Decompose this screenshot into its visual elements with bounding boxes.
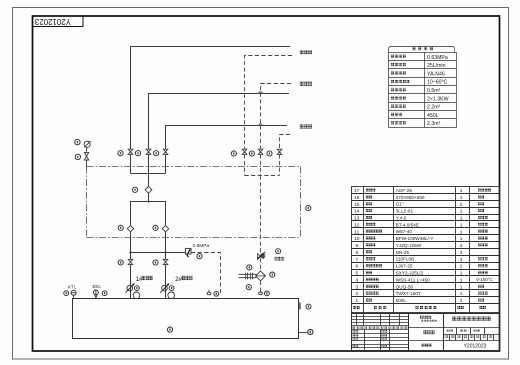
svg-text:Y2012023: Y2012023 — [464, 344, 487, 350]
wire supply line 3 — [166, 126, 288, 150]
svg-text:4: 4 — [355, 278, 358, 284]
svg-text:2×1.3KW: 2×1.3KW — [427, 96, 449, 102]
svg-text:1: 1 — [460, 216, 463, 222]
node circle on drain line — [306, 206, 311, 211]
svg-text:7: 7 — [355, 257, 358, 263]
svg-text:AGF-25: AGF-25 — [396, 188, 413, 193]
svg-text:0.5m²: 0.5m² — [427, 88, 441, 94]
svg-text:2: 2 — [460, 202, 463, 208]
wire filter to pump header — [148, 193, 150, 201]
svg-text:G1": G1" — [396, 202, 404, 207]
tank right level mark — [299, 303, 311, 310]
svg-text:8: 8 — [355, 250, 358, 256]
title block small scale cells marks — [445, 329, 493, 338]
wire return drop line (dashed) — [260, 176, 262, 253]
svg-text:2: 2 — [355, 291, 358, 297]
check valve CV1 — [118, 225, 134, 232]
svg-text:1: 1 — [460, 195, 463, 201]
svg-text:KTL: KTL — [68, 285, 77, 290]
wire hop at crossing L3 — [259, 124, 262, 126]
wire return line 3 (dashed) — [280, 135, 291, 150]
svg-text:0.63MPa: 0.63MPa — [427, 55, 448, 61]
parts row item 10 — [354, 236, 488, 242]
title block left texts — [352, 326, 407, 348]
tank drain stub valve — [299, 329, 313, 334]
check valve CV2 — [153, 225, 169, 232]
svg-text:WSS-411 L=450: WSS-411 L=450 — [396, 277, 431, 282]
wire return line 2 (dashed) — [261, 84, 292, 150]
svg-text:110FL0B: 110FL0B — [396, 257, 415, 262]
svg-text:1: 1 — [460, 236, 463, 242]
parts row item 13 — [354, 215, 488, 221]
level controller KTL — [64, 285, 77, 299]
svg-text:13: 13 — [354, 216, 360, 222]
svg-text:3: 3 — [355, 284, 358, 290]
wire manifold to filter — [148, 174, 150, 187]
title block company name — [452, 317, 491, 321]
svg-text:1: 1 — [460, 229, 463, 235]
svg-text:1: 1 — [460, 188, 463, 194]
valve V4 return with number circle — [231, 149, 247, 175]
svg-text:14: 14 — [354, 209, 360, 215]
pump P2 with motor — [160, 283, 174, 298]
gauge isolation valve — [75, 147, 89, 166]
air breather / fill port label — [275, 249, 285, 261]
chain drain line right vertical — [300, 167, 302, 238]
tech row 1 — [391, 55, 448, 61]
drawing number box top-left (rotated) — [33, 16, 84, 27]
svg-text:W57-40: W57-40 — [396, 229, 413, 234]
wire hop at crossing L2 — [259, 92, 262, 94]
tech row 5 — [391, 88, 440, 94]
svg-text:11: 11 — [354, 229, 359, 235]
valve V5 return with number circle — [249, 149, 263, 175]
svg-text:YA-N46: YA-N46 — [427, 71, 445, 77]
title block grid — [352, 314, 500, 351]
chain drain line top — [87, 166, 301, 168]
svg-text:15: 15 — [354, 202, 360, 208]
svg-text:3LLZ-61: 3LLZ-61 — [396, 209, 414, 214]
parts row item 9 — [355, 243, 487, 249]
valve V3 supply with number circle — [154, 149, 168, 173]
tech row 8 — [391, 113, 438, 119]
svg-text:10~60°C: 10~60°C — [427, 80, 448, 86]
wire valve to filter (dashed) — [260, 258, 262, 271]
parts row item 16 — [354, 195, 484, 201]
parts list table grid — [352, 187, 500, 313]
svg-text:2: 2 — [460, 264, 463, 270]
svg-text:3: 3 — [460, 257, 463, 263]
tech row 3 — [391, 71, 445, 77]
svg-text:25L/min: 25L/min — [427, 63, 446, 69]
svg-text:6: 6 — [355, 264, 358, 270]
svg-text:1: 1 — [460, 291, 463, 297]
svg-text:Y2012023: Y2012023 — [34, 17, 71, 26]
svg-text:450L: 450L — [427, 113, 439, 119]
tech row 9 — [391, 121, 440, 127]
chain drain line left vertical — [86, 167, 88, 238]
relief valve RV1 0.5MPa — [185, 243, 209, 259]
node label: to machine 2 — [300, 82, 312, 86]
svg-text:10: 10 — [354, 236, 360, 242]
wire supply line 1 — [131, 47, 291, 150]
svg-text:3: 3 — [460, 250, 463, 256]
node label: to machine 1 — [300, 50, 312, 54]
tech row 7 — [391, 105, 440, 111]
parts row item 17 — [354, 188, 491, 194]
svg-text:1: 1 — [460, 284, 463, 290]
parts header row — [353, 306, 486, 310]
return filter F2 (diamond) — [256, 271, 275, 281]
valve suction S1 — [118, 253, 133, 299]
valve V2 supply with number circle — [135, 149, 150, 173]
wire pump manifold horizontal — [131, 252, 186, 254]
wire return manifold (dashed) — [245, 175, 280, 177]
tech row 2 — [391, 63, 445, 69]
svg-text:Y-4.0: Y-4.0 — [396, 215, 407, 220]
wire return line 1 (dashed) — [245, 56, 293, 150]
svg-text:1: 1 — [355, 298, 358, 304]
fill valve with handle — [257, 252, 265, 260]
svg-text:2.2m³: 2.2m³ — [427, 105, 441, 111]
tech parameter table — [389, 47, 457, 128]
svg-text:5: 5 — [355, 271, 358, 277]
svg-text:1: 1 — [460, 271, 463, 277]
title block middle: project and sheet name — [419, 316, 437, 347]
svg-text:2.3m³: 2.3m³ — [427, 121, 441, 127]
svg-text:9: 9 — [355, 243, 358, 249]
wire check valves to suction manifold — [130, 232, 132, 253]
valve V1 supply with number circle — [118, 149, 133, 173]
svg-text:0-100°C: 0-100°C — [477, 277, 493, 282]
valve V6 return with number circle — [267, 149, 282, 175]
return diffuser into tank — [259, 291, 270, 296]
filter F1 (item 1) — [132, 186, 152, 193]
svg-text:EEL: EEL — [93, 284, 102, 289]
parts row item 3 — [355, 284, 484, 290]
parts row item 4 — [355, 277, 492, 283]
wire supply manifold — [131, 173, 166, 175]
svg-text:BT-4.0/54E: BT-4.0/54E — [396, 222, 419, 227]
svg-text:1: 1 — [460, 278, 463, 284]
svg-text:12: 12 — [354, 222, 360, 228]
svg-text:DN-25: DN-25 — [396, 250, 410, 255]
parts row item 11 — [354, 229, 487, 235]
svg-text:1: 1 — [460, 209, 463, 215]
svg-text:QUQ-50: QUQ-50 — [396, 284, 414, 289]
parts row item 8 — [355, 250, 462, 256]
parts row item 7 — [355, 257, 487, 263]
svg-text:16: 16 — [354, 195, 360, 201]
hose coupling branch left of filter — [238, 265, 256, 290]
svg-text:1: 1 — [460, 298, 463, 304]
tank item number — [167, 327, 172, 332]
parts row item 14 — [354, 209, 484, 215]
parts row item 12 — [354, 222, 488, 228]
drain diffuser into tank — [207, 290, 219, 296]
pump P1 with motor — [126, 283, 140, 298]
node label: to machine 3 — [300, 124, 312, 128]
node label: pump 1 name — [136, 276, 153, 283]
svg-text:2#: 2# — [175, 277, 182, 283]
svg-text:500L: 500L — [396, 298, 407, 303]
parts row item 5 — [355, 271, 487, 277]
parts row item 1 — [355, 298, 484, 304]
tech row 4 — [391, 80, 447, 86]
wire pump discharge header — [131, 202, 166, 226]
oil tank T1 — [73, 299, 299, 339]
valve suction S2 — [153, 253, 168, 299]
parts row item 2 — [355, 291, 487, 297]
parts row item 6 — [355, 264, 487, 270]
svg-text:LJ67-25: LJ67-25 — [396, 264, 413, 269]
svg-text:1: 1 — [460, 222, 463, 228]
chain drain line bottom — [87, 237, 301, 239]
wire filter to tank (dashed) — [260, 281, 262, 292]
svg-text:4: 4 — [460, 243, 463, 249]
svg-text:470×650×650: 470×650×650 — [396, 195, 425, 200]
wire supply line 2 — [149, 94, 290, 150]
svg-text:BFW-100W38L/-Y: BFW-100W38L/-Y — [396, 236, 435, 241]
wire relief valve drain (dashed) — [191, 253, 221, 296]
parts row item 15 — [354, 202, 484, 208]
pressure gauge G1 — [75, 139, 91, 147]
tech row 6 — [391, 96, 448, 102]
svg-text:TWX7-150T: TWX7-150T — [396, 291, 421, 296]
node label: pump 2 name — [175, 276, 192, 283]
svg-text:SXY2-J25L/2: SXY2-J25L/2 — [396, 271, 424, 276]
svg-text:0.5MPa: 0.5MPa — [193, 243, 210, 249]
svg-text:YJZQ-J25W: YJZQ-J25W — [396, 243, 422, 248]
level gauge EEL — [93, 284, 108, 298]
svg-text:17: 17 — [354, 188, 360, 194]
